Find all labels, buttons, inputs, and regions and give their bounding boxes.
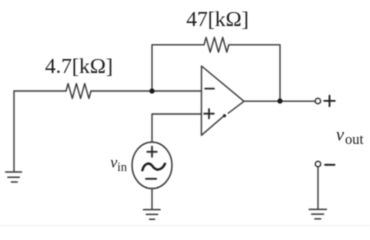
svg-text:4.7[kΩ]: 4.7[kΩ] [45, 54, 113, 78]
svg-text:v: v [336, 125, 344, 145]
svg-text:out: out [345, 132, 364, 148]
svg-text:in: in [117, 160, 127, 174]
svg-text:47[kΩ]: 47[kΩ] [186, 7, 249, 31]
